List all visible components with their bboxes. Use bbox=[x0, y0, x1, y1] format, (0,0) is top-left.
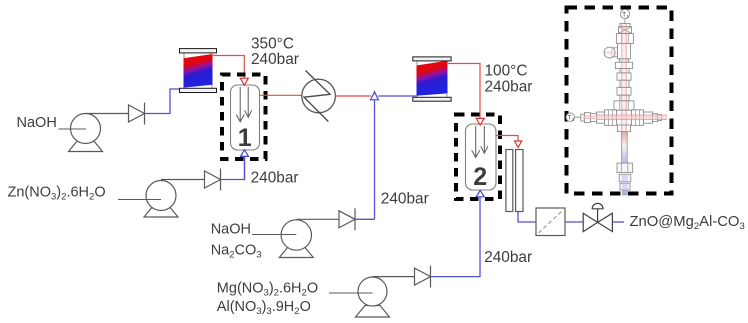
arrow flow right in R2 bbox=[481, 126, 488, 153]
X pattern on small valve fitting bbox=[619, 27, 632, 34]
pump P4 bbox=[358, 277, 387, 306]
reactor R1 dashed box bbox=[222, 75, 266, 160]
wire valve V3 to junction (blue) bbox=[355, 218, 374, 220]
pump P4 base bbox=[356, 306, 390, 318]
svg-text:240bar: 240bar bbox=[251, 51, 299, 68]
wire NaOH label leader bbox=[59, 128, 87, 130]
wire NaOH2 label leader bbox=[252, 234, 296, 236]
check valve V2 bbox=[205, 169, 221, 191]
tube branch left pink bbox=[605, 51, 618, 54]
check valve V3 bbox=[339, 208, 355, 230]
pump P2 base bbox=[144, 206, 178, 218]
column F1 bbox=[506, 150, 513, 212]
thermocouple T1 bbox=[620, 9, 629, 18]
svg-text:ZnO@Mg2Al-CO3: ZnO@Mg2Al-CO3 bbox=[630, 214, 745, 232]
inlet triangle R1 top (red) bbox=[240, 78, 248, 85]
wire P2 to valve V2 bbox=[161, 179, 205, 181]
wire Mg label leader bbox=[329, 292, 373, 294]
wire valve V2 to R1 (blue) bbox=[221, 157, 245, 180]
check valve V1 bbox=[129, 103, 145, 125]
svg-text:100°C: 100°C bbox=[485, 63, 528, 80]
wire NaOH pump to valve V1 bbox=[86, 113, 129, 115]
pump P3 base bbox=[279, 246, 313, 258]
arrow flow right in R1 bbox=[245, 87, 252, 117]
svg-text:Na2CO3: Na2CO3 bbox=[211, 243, 262, 261]
tube blue small above tip bbox=[622, 174, 628, 190]
wire junction to coil 2 (blue) bbox=[378, 95, 417, 97]
wire HX to junction (red) bbox=[335, 95, 370, 97]
wire filter box to valve (blue) bbox=[565, 221, 583, 223]
column F2 bbox=[516, 150, 523, 212]
wire R1 out to HX (red) bbox=[260, 94, 302, 96]
wire P4 to valve V4 bbox=[373, 276, 415, 278]
inlet triangle R1 bottom (blue) bbox=[241, 150, 249, 157]
bottom nuts bbox=[617, 163, 633, 190]
wire junction vertical (blue) bbox=[374, 100, 376, 220]
coil 2 body bbox=[417, 61, 448, 96]
wire P3 to valve V3 bbox=[296, 218, 339, 220]
tube red vertical bbox=[622, 24, 626, 134]
filter box bbox=[536, 208, 565, 236]
coil 1 body bbox=[184, 54, 213, 88]
pump P1 base bbox=[69, 140, 103, 152]
wire coil 2 to reactor 2 (red) bbox=[448, 64, 480, 119]
svg-text:NaOH: NaOH bbox=[211, 222, 251, 238]
pump P1 bbox=[71, 114, 101, 144]
coil 1 bottom plate bbox=[180, 88, 217, 92]
coil 2 bottom plate bbox=[413, 97, 451, 101]
coil 1 side rails bbox=[183, 52, 185, 89]
svg-text:240bar: 240bar bbox=[381, 190, 429, 207]
svg-text:NaOH: NaOH bbox=[17, 115, 57, 131]
pump P2 bbox=[146, 181, 176, 211]
svg-text:1: 1 bbox=[238, 124, 252, 152]
wire columns to filter box (blue) bbox=[518, 212, 536, 222]
reactor R2 dashed box bbox=[456, 115, 500, 200]
wire valve V1 to coil 1 (blue) bbox=[145, 89, 184, 114]
arrow flow left in R2 bbox=[472, 126, 480, 158]
svg-text:350°C: 350°C bbox=[251, 35, 294, 52]
wire R2 out to columns (red) bbox=[497, 136, 519, 142]
nut facet lines bbox=[609, 34, 640, 126]
reactor R2 vessel bbox=[466, 124, 497, 190]
inlet triangle R2 bottom (blue) bbox=[476, 190, 484, 196]
svg-text:240bar: 240bar bbox=[251, 170, 299, 187]
tube red vertical edges bbox=[622, 24, 626, 134]
junction arrow (blue) bbox=[371, 92, 379, 100]
svg-text:2: 2 bbox=[473, 163, 487, 191]
wire valve to product label (blue) bbox=[613, 221, 625, 223]
wire Zn label leader bbox=[118, 199, 161, 201]
globe valve bbox=[583, 203, 612, 231]
pump P3 bbox=[281, 220, 311, 250]
reactor R1 vessel bbox=[231, 85, 260, 150]
thermocouple T2 bbox=[566, 113, 574, 121]
coil 1 top plate bbox=[180, 49, 217, 53]
svg-text:240bar: 240bar bbox=[485, 79, 533, 96]
heat exchanger HX1 bbox=[302, 79, 336, 113]
insert assembly dashed box bbox=[567, 8, 672, 194]
wire R1 bottom to Zn line (blue) bbox=[244, 156, 246, 179]
tube red horizontal bbox=[596, 115, 667, 120]
coil 2 top plate bbox=[413, 57, 451, 61]
check valve V4 bbox=[415, 266, 431, 288]
arrow flow left in R1 bbox=[236, 87, 244, 122]
wire valve V4 to R2 (blue) bbox=[431, 276, 481, 278]
wire coil 1 to reactor 1 (red) bbox=[213, 56, 244, 79]
fitting collar top bbox=[581, 24, 662, 132]
tube tip bottom bbox=[623, 190, 628, 195]
wire R2 bottom to Mg line (blue) bbox=[479, 197, 481, 277]
tube below cross gradient bbox=[622, 132, 628, 164]
assembly group bbox=[566, 9, 667, 194]
coil 2 side rails bbox=[416, 60, 418, 97]
svg-text:240bar: 240bar bbox=[484, 249, 532, 266]
inlet triangle R2 top (red) bbox=[476, 118, 484, 125]
inlet triangle columns (red) bbox=[515, 141, 522, 147]
